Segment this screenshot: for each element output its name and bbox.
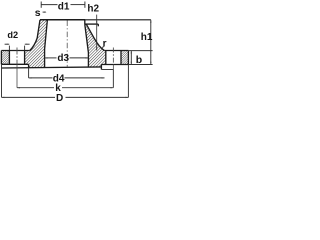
d3 arrow right (86, 57, 89, 58)
b top extension (128, 50, 152, 52)
raised face bottom and left shelf line (2, 67, 102, 68)
k arrow right (111, 87, 114, 88)
hatched section: left neck wall (30, 20, 48, 51)
dimension line h1 (150, 20, 152, 65)
d2 arrowhead left (7, 44, 10, 45)
svg-text:h1: h1 (141, 32, 153, 43)
svg-text:d1: d1 (58, 1, 70, 12)
bolt centerline left / k extension (16, 48, 18, 65)
right weld bevel end tick (97, 24, 99, 26)
d4 arrow right (102, 77, 105, 78)
D arrow right (126, 97, 129, 98)
d4 arrow left (29, 77, 32, 78)
D extension left (1, 64, 3, 97)
dimension line d3 (45, 57, 57, 59)
plate left edge (0, 51, 2, 65)
neck left inner bore wall (45, 20, 48, 68)
dimension line D (2, 96, 56, 98)
plate bottom right (101, 64, 128, 66)
d2 arrowhead right (25, 44, 28, 45)
svg-text:s: s (35, 7, 41, 19)
right weld bevel shelf (85, 23, 99, 25)
plate right edge (127, 51, 129, 65)
svg-text:b: b (136, 54, 142, 66)
hatched section: left plate outboard of bolt hole (1, 51, 9, 65)
D arrow left (2, 97, 5, 98)
bolt hole left wall (right hole) (105, 51, 107, 65)
raised face right edge (100, 65, 102, 70)
svg-text:d2: d2 (7, 30, 18, 40)
bolt hole right wall (right hole) (120, 51, 122, 65)
hatched section: left raised face (29, 64, 45, 68)
h1 arrow bottom (150, 62, 151, 65)
D extension right (127, 65, 129, 98)
b bottom extension (128, 64, 152, 66)
d2 arrow left (5, 43, 10, 45)
leader for r (102, 46, 103, 49)
plate top left (1, 50, 29, 52)
dimension line d4 (29, 77, 53, 79)
bolt hole left wall (left hole) (8, 51, 10, 65)
d2 extension right (24, 46, 26, 51)
centerline of flange axis (66, 21, 68, 67)
plate bottom left (1, 63, 28, 65)
bolt hole right wall (left hole) (24, 51, 26, 65)
neck right inner bore wall (85, 24, 89, 67)
dimension line k (17, 87, 54, 89)
b arrow bottom (131, 62, 132, 65)
wire top face and h1 extension line (40, 19, 85, 21)
hatched section: left plate inboard of bolt hole (25, 51, 45, 65)
d1 end tick right (84, 2, 86, 8)
hatched section: right plate inboard of bolt hole (88, 51, 105, 65)
b arrow top (131, 51, 132, 54)
dimension line h2 (96, 15, 98, 51)
svg-text:D: D (56, 93, 63, 104)
hatched section: right plate outboard of bolt hole (121, 51, 128, 65)
svg-text:r: r (103, 38, 107, 49)
leader arrow for s (43, 11, 46, 13)
hatched section: right neck wall (85, 24, 104, 52)
d4 extension left (28, 68, 30, 78)
svg-text:d3: d3 (57, 53, 69, 64)
d3 arrow left (45, 57, 48, 58)
dimension line d1 (41, 4, 57, 6)
s arrowhead (44, 12, 47, 13)
bolt centerline right / k extension (112, 48, 114, 65)
neck right outer flare (86, 24, 104, 50)
h2 arrow bottom (96, 48, 97, 51)
dimension line b (130, 51, 132, 65)
raised face left edge (28, 64, 30, 68)
plate top right (104, 50, 128, 52)
d2 arrow right (25, 43, 30, 45)
d1 end tick left (40, 2, 42, 8)
hatched section: right raised face (88, 64, 101, 67)
neck left outer flare (30, 20, 40, 51)
svg-text:h2: h2 (87, 4, 99, 15)
d2 extension left (8, 46, 10, 51)
h1 arrow top (150, 20, 151, 23)
shelf jog right connecting to k extension (101, 69, 113, 71)
k arrow left (17, 87, 20, 88)
h2 arrow top (96, 20, 97, 23)
right weld bevel step vertical (84, 20, 86, 25)
